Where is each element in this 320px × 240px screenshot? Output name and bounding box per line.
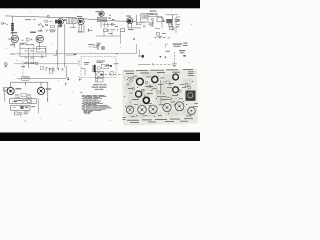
tone switch wire: [17, 76, 66, 80]
left tuning section verticals: [58, 24, 68, 79]
antenna terminal: [1, 22, 8, 24]
title block: [92, 84, 107, 89]
label V2: [30, 32, 36, 33]
tube V6 output: [127, 18, 141, 28]
node loop on bus: [47, 15, 49, 17]
small chassis part circles: [127, 80, 181, 101]
antenna coil L1: [11, 16, 13, 35]
label on bus: [25, 18, 31, 21]
speaker dashed enclosure: [81, 57, 116, 78]
trimmer circles: [185, 83, 188, 86]
AVC resistor ladder: [20, 43, 73, 69]
tube V7: [7, 87, 14, 94]
loop antenna dashed: [23, 61, 53, 76]
speaker内 parts: [81, 64, 109, 82]
chassis text smudges: [123, 71, 199, 122]
parts between V1 V2: [21, 38, 33, 41]
power box 2: [11, 105, 30, 110]
right mid annotations: [154, 37, 169, 38]
tuning capacitor with arrow: [38, 23, 48, 33]
parts list text: [81, 92, 112, 114]
osc components chain: [151, 17, 181, 35]
tube V2 12BA6: [36, 35, 43, 47]
chassis base: [122, 69, 198, 126]
phono jack: [4, 63, 7, 68]
electrolytic C: [97, 44, 104, 50]
socket circles bottom row: [126, 102, 195, 115]
corner mark: [79, 77, 82, 81]
scan speckle: [6, 10, 192, 121]
parts under T2: [138, 22, 146, 27]
speckles: [124, 79, 193, 117]
oscillator label box: [148, 13, 162, 27]
caption texts top: [124, 69, 193, 74]
output transformer T3: [166, 15, 178, 31]
label under V1: [10, 43, 14, 46]
IF transformer T1: [67, 18, 76, 28]
top letterbox bar: [0, 0, 200, 8]
det coupling box: [97, 17, 116, 27]
wire B+ bus: [5, 16, 137, 22]
components row mid-left: [46, 67, 64, 71]
IF can rings top row: [136, 74, 179, 103]
cathode resistors: [5, 88, 32, 101]
bottom letterbox bar: [0, 133, 200, 142]
tube V3 converter: [55, 19, 66, 28]
power box 1: [10, 99, 37, 104]
output block frame: [4, 82, 48, 101]
tube V1 12BE6: [8, 35, 19, 47]
plus mark: [164, 56, 166, 58]
ground symbol: [172, 52, 177, 67]
dial pointer: [160, 80, 162, 94]
dashes to chassis: [105, 73, 121, 75]
label V4: [77, 15, 82, 18]
tube V8: [37, 87, 44, 94]
power transformer blob: [186, 91, 196, 101]
long lower horizontal wire: [14, 63, 78, 65]
label V1: [11, 32, 17, 33]
dashed ground run: [138, 63, 172, 66]
long mid horizontal wire: [11, 44, 140, 56]
filter cap marker: [138, 54, 144, 58]
wire bus drop at x136: [136, 15, 138, 25]
tube V5 det/AF: [99, 11, 104, 16]
parts left of V3: [45, 20, 55, 27]
tube V4 IF amp: [78, 18, 89, 33]
parts row under V5: [96, 29, 124, 44]
IF transformer T2 can: [141, 14, 148, 22]
chassis mottling: [124, 72, 193, 118]
rectifier parts: [15, 99, 48, 117]
